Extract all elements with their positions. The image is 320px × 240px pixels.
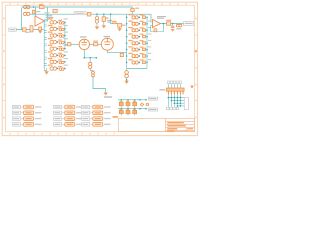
capacitor C6 electrolytic: [125, 71, 129, 75]
wire feedback top op-amp U1: [22, 6, 133, 8]
wire U2 output: [161, 23, 184, 25]
V1 reference text: [80, 36, 87, 37]
matrix bus bottom: [118, 108, 147, 110]
frame tick marks top: [18, 2, 178, 5]
V2 reference text: [104, 36, 111, 37]
value text R4: [45, 12, 50, 13]
resistor R2 input: [22, 28, 26, 31]
label text under R2: [25, 32, 30, 33]
ground left ladder: [46, 68, 48, 71]
resistor row L7: [44, 58, 68, 64]
value text R6: [93, 41, 98, 42]
connector top stubs: [168, 84, 180, 88]
wire to L2: [90, 69, 93, 71]
bottom row 3 col 1: [12, 117, 41, 121]
bottom row 4 col 1: [12, 123, 41, 127]
ground D1: [117, 28, 121, 31]
wire U2 feedback: [151, 24, 164, 32]
resistor row L2: [44, 25, 68, 31]
junction node mid: [89, 57, 91, 59]
connector labels top row: [167, 81, 181, 84]
value texts matrix row1: [120, 101, 136, 110]
junction node T1 out: [33, 6, 35, 8]
op-amp U1: [35, 16, 45, 26]
wire input row: [16, 29, 43, 31]
U2 reference text: [157, 16, 166, 17]
op-amp U2: [153, 20, 161, 28]
wire drop of top line: [132, 7, 134, 14]
junction node right: [96, 57, 98, 59]
matrix stubs: [121, 100, 134, 116]
wire V1 cathode chain: [84, 50, 96, 58]
wire output feedback drop: [47, 7, 49, 21]
resistor row L3: [44, 32, 68, 38]
value text D1: [122, 25, 126, 26]
resistor row R4a: [126, 33, 151, 38]
wire minus input drop: [35, 7, 37, 19]
capacitor C3: [95, 16, 98, 19]
net label matrix top: [148, 97, 157, 100]
diode D3 row1: [126, 102, 130, 106]
grid reference letter right border: [195, 50, 197, 52]
diode D5 row2: [119, 110, 123, 114]
net label matrix bottom: [148, 108, 157, 111]
bottom row 3 col 2: [54, 117, 83, 121]
net label IN left: [9, 28, 16, 31]
bottom row 1 col 3: [82, 105, 111, 109]
resistor row R3a: [126, 27, 151, 32]
tube V2: [101, 38, 113, 50]
header text above col3: [104, 96, 112, 97]
wire ladder to tube V1: [65, 43, 79, 45]
value text R9: [166, 20, 171, 21]
diode D7 row2: [133, 110, 137, 114]
resistor R3 below U1: [39, 27, 42, 30]
junction U2 output: [163, 23, 165, 25]
diode D4 row1: [133, 102, 137, 106]
resistor R4 top of ladder: [53, 9, 57, 12]
wire cap drop 2: [103, 14, 105, 17]
bottom row 2 col 3: [82, 111, 111, 115]
resistor row L8: [44, 65, 68, 71]
junction V1 cathode: [84, 57, 86, 59]
resistor row L1: [44, 18, 68, 24]
left ladder right rail: [64, 22, 66, 48]
inductor L3 output: [176, 24, 179, 27]
junction output cap: [172, 23, 174, 25]
wire branch to C5: [111, 14, 120, 24]
bottom row 2 col 1: [12, 111, 41, 115]
J1 reference text: [160, 89, 166, 90]
sheet frame inner border: [5, 5, 194, 131]
resistor row R5a: [126, 40, 151, 45]
resistor R7: [120, 53, 123, 56]
wire down from junction: [89, 58, 91, 62]
power flag on right border: [190, 85, 193, 88]
connector J1 body: [166, 88, 184, 91]
ground chain: [104, 92, 108, 95]
wire to ground C3: [96, 23, 98, 26]
fuse F1 on bus: [87, 12, 91, 16]
capacitor C5: [113, 21, 116, 23]
resistor row R7a: [126, 53, 151, 58]
resistor R5 grid: [67, 43, 71, 46]
resistor row L6: [44, 51, 68, 57]
matrix junctions bottom: [121, 108, 147, 110]
diode D8 diamond: [140, 103, 144, 107]
label text near C1: [36, 11, 41, 12]
wire chain to ground: [93, 77, 106, 93]
LED indicator: [146, 103, 149, 106]
bottom row 4 col 2: [54, 123, 83, 127]
resistor row R1a: [126, 14, 151, 19]
capacitor C1: [32, 10, 35, 14]
diode D6 row2: [126, 110, 130, 114]
ground C4: [102, 25, 106, 28]
wire V1 to V2: [90, 43, 102, 45]
junction bus node 3: [110, 13, 112, 15]
diode D1: [118, 23, 122, 27]
inductor L1: [89, 62, 92, 65]
transformer T1 windings: [24, 5, 30, 15]
ground C7: [171, 29, 175, 32]
ground below U1: [38, 31, 42, 34]
ground C3: [95, 26, 99, 29]
resistor row L4: [44, 38, 68, 44]
right ladder right rail: [146, 17, 148, 69]
value text L3: [176, 28, 181, 29]
resistor row R6a: [126, 46, 151, 51]
wire V2 anode: [107, 50, 126, 52]
connector junction grid: [168, 97, 182, 107]
capacitor C2 input: [30, 26, 33, 32]
left ladder rail: [43, 20, 45, 69]
connector J1 pins: [168, 91, 183, 94]
power label box on bus: [74, 12, 86, 15]
U2 value text: [157, 18, 164, 19]
grid reference letter left border: [3, 50, 5, 52]
grid reference numbers top border: [9, 3, 186, 5]
capacitor C4: [102, 17, 105, 22]
matrix junctions top: [121, 99, 147, 101]
connector wire drops: [168, 94, 184, 106]
title block: [119, 118, 195, 131]
wire U1 output: [45, 20, 48, 22]
U1 value text: [46, 17, 54, 18]
bottom row 1 col 2: [54, 105, 83, 109]
junction bus node 1: [96, 13, 98, 15]
right ladder left rail: [126, 14, 128, 70]
wire bottom of ladder: [127, 68, 147, 70]
connector labels bottom row: [166, 107, 179, 110]
U1 reference text: [46, 15, 53, 16]
resistor R10 on drop: [131, 8, 134, 11]
resistor row L5: [44, 45, 68, 51]
resistor R8 below U2: [154, 29, 157, 32]
diode D2 row1: [119, 102, 123, 106]
value text R10: [135, 8, 139, 9]
resistor row R2a: [126, 21, 151, 26]
resistor R6 coupling: [93, 43, 97, 46]
tube V1: [79, 39, 89, 49]
wire cap drop 1: [96, 14, 98, 16]
bus sink box: [184, 97, 188, 109]
frame tick marks right: [194, 35, 197, 101]
grid reference numbers bottom border: [9, 133, 106, 135]
capacitor C7 to ground: [172, 24, 174, 26]
bottom row 1 col 1: [12, 105, 41, 109]
bottom row 3 col 3: [82, 117, 111, 121]
net label OUT: [184, 22, 194, 26]
inductor L2: [92, 71, 95, 74]
value label R1: [39, 4, 43, 5]
net name text mid: [107, 20, 112, 21]
wire C6 to ground: [126, 78, 128, 81]
resistor R9 output: [167, 22, 171, 25]
matrix bus top: [118, 99, 147, 101]
value text C4: [106, 17, 109, 18]
frame tick marks bottom: [18, 132, 114, 136]
resistor row R8a: [126, 59, 151, 64]
title block text: [113, 116, 194, 131]
sheet frame outer border: [2, 2, 197, 135]
frame tick marks left: [2, 35, 5, 101]
net bus wire top: [30, 14, 152, 22]
wire vertical left input: [21, 8, 23, 30]
resistor R1 feedback: [39, 6, 44, 9]
bottom row 4 col 3: [82, 123, 111, 127]
wire to ground D1: [119, 27, 121, 28]
junction bus node 2: [103, 13, 105, 15]
bottom row 2 col 2: [54, 111, 83, 115]
junction C6 ground: [126, 79, 128, 81]
ground C6: [124, 81, 128, 84]
wire to ground C4: [103, 21, 105, 25]
